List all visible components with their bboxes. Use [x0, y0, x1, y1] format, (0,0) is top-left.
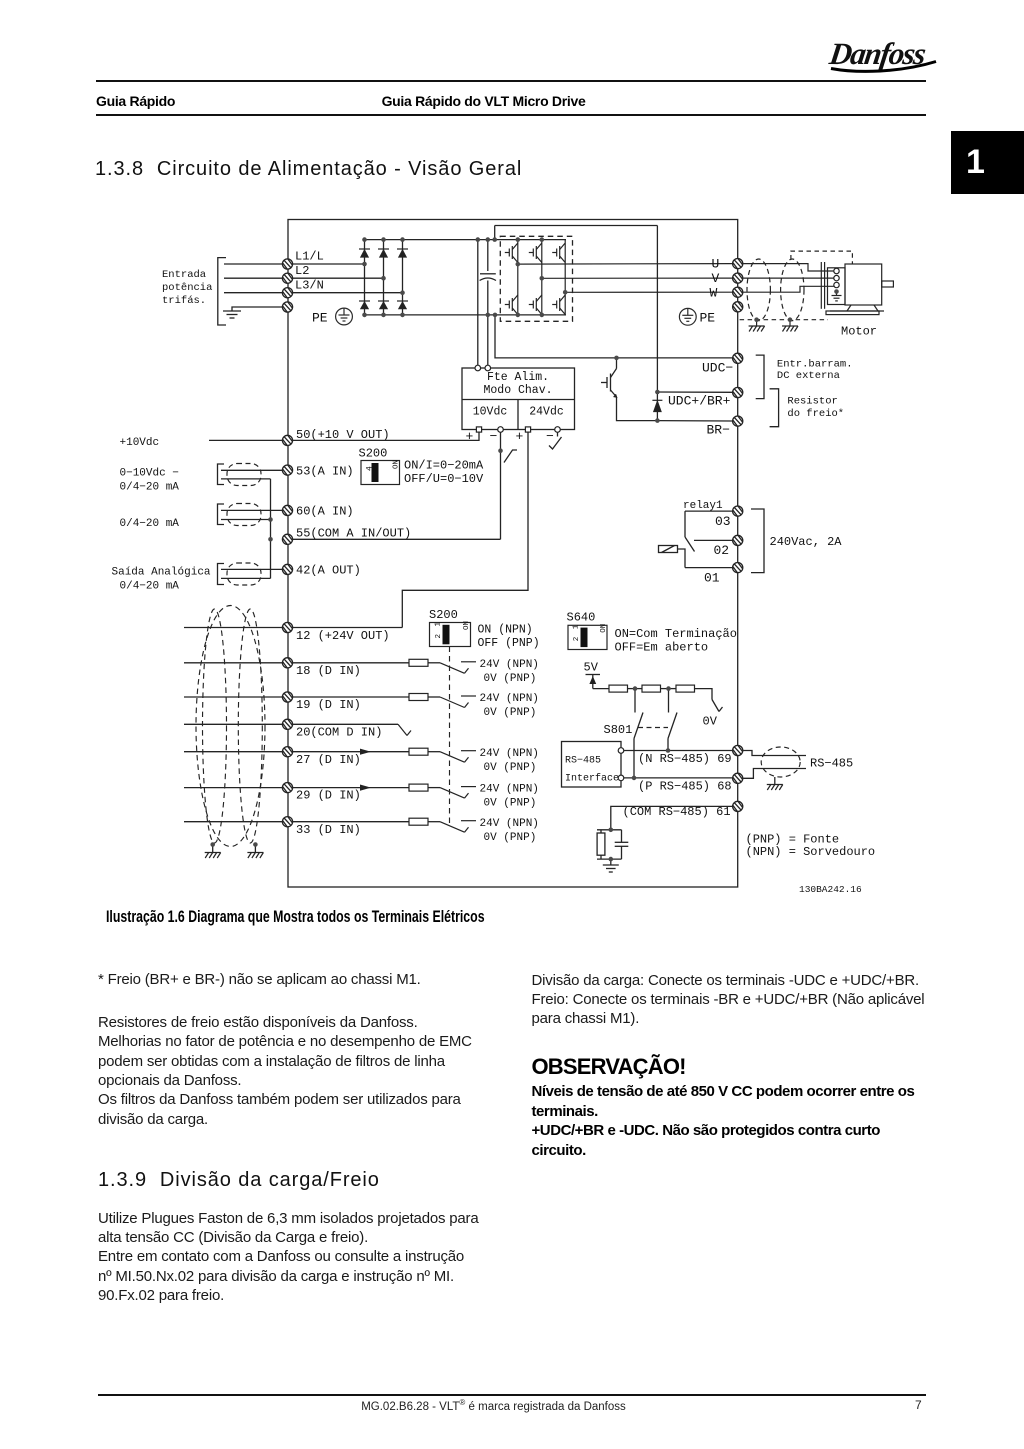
- shielded pair 60 bracket: [218, 504, 225, 525]
- junction dots brake: [614, 356, 660, 423]
- IGBT Q4: [505, 295, 518, 315]
- terminal UDC-: [733, 353, 743, 363]
- wire S801 drop1: [634, 689, 636, 713]
- svg-text:S801: S801: [604, 723, 633, 737]
- svg-text:UDC+/BR+: UDC+/BR+: [668, 394, 731, 409]
- svg-text:24Vdc: 24Vdc: [529, 406, 564, 419]
- svg-text:24V (NPN): 24V (NPN): [480, 693, 539, 705]
- shielded pair 53 screen: [227, 464, 261, 486]
- drive outer enclosure box: [288, 220, 738, 888]
- wire 50 +10V: [209, 439, 282, 441]
- wire 53 signal: [221, 469, 282, 471]
- label psu polarity: [466, 429, 555, 444]
- svg-text:OFF (PNP): OFF (PNP): [478, 637, 540, 650]
- switch 0V: [712, 700, 723, 712]
- bracket DC bus external: [756, 355, 764, 399]
- svg-text:0/4−20 mA: 0/4−20 mA: [120, 581, 180, 593]
- switch 20 common: [398, 724, 411, 735]
- wire 19 to switch: [428, 696, 440, 698]
- svg-text:1: 1: [435, 622, 443, 627]
- Danfoss logo: [812, 24, 962, 84]
- motor M1: [821, 262, 893, 315]
- svg-text:+10Vdc: +10Vdc: [120, 437, 160, 449]
- resistor R61: [597, 830, 605, 859]
- terminal 69: [733, 745, 743, 755]
- motor cable shield oval 2: [781, 259, 804, 321]
- resistor R33: [409, 818, 428, 825]
- terminal 02: [733, 535, 743, 545]
- wire 42 return: [221, 577, 271, 579]
- chapter tab: [951, 131, 1024, 194]
- IGBT Q2: [529, 243, 542, 263]
- label 27 levels: [480, 748, 539, 774]
- terminal 50: [282, 435, 292, 445]
- svg-text:S640: S640: [567, 611, 596, 625]
- PE output symbol: [679, 308, 696, 325]
- junction dots cable screen: [210, 842, 257, 847]
- svg-text:2: 2: [435, 634, 443, 639]
- wire relay 01: [685, 567, 732, 569]
- svg-text:0V: 0V: [703, 715, 718, 729]
- diode D7 brake: [652, 400, 662, 411]
- wire PE input: [232, 307, 282, 311]
- diode D6: [397, 301, 408, 309]
- wire L3 to leg3: [293, 292, 403, 294]
- shielded pair 42 bracket: [218, 564, 225, 585]
- wire analog common bus: [270, 479, 272, 579]
- wire 53 return: [221, 478, 271, 480]
- footer: [98, 1394, 926, 1396]
- svg-text:−: −: [490, 429, 498, 444]
- label 29 levels: [480, 784, 539, 810]
- wire 27 external: [184, 751, 282, 753]
- terminal 01: [733, 563, 743, 573]
- wire coil to contact: [678, 549, 686, 568]
- pin psu 24V plus: [525, 427, 530, 432]
- resistor R29: [409, 784, 428, 791]
- wire L2 to leg2: [293, 277, 384, 279]
- wire 69: [624, 750, 732, 752]
- wire U to motor: [743, 264, 834, 271]
- wire L1 to leg1: [293, 263, 365, 265]
- junction dots DC link: [476, 237, 498, 317]
- junction dots rc: [609, 828, 614, 862]
- wire relay common drop: [684, 511, 686, 537]
- svg-text:OFF=Em aberto: OFF=Em aberto: [615, 641, 709, 655]
- svg-text:0V (PNP): 0V (PNP): [484, 707, 537, 719]
- svg-text:L3/N: L3/N: [295, 279, 324, 293]
- wire cable screen drain 2: [254, 845, 256, 853]
- wire shield ground stub 2: [789, 320, 791, 326]
- wire brake IGBT collector: [616, 358, 618, 369]
- wire BR-: [657, 420, 732, 422]
- terminal 20: [282, 719, 292, 729]
- label PNP NPN legend: [746, 833, 876, 859]
- junction dot motor pe: [834, 289, 839, 294]
- svg-text:10Vdc: 10Vdc: [473, 406, 508, 419]
- svg-text:S200: S200: [359, 447, 388, 461]
- switch S801 blade1: [634, 713, 643, 739]
- wire inverter leg3: [564, 240, 566, 315]
- terminal 19: [282, 692, 292, 702]
- terminal 60: [282, 505, 292, 515]
- diode D2: [378, 249, 389, 257]
- svg-text:5V: 5V: [584, 661, 599, 675]
- terminal 18: [282, 658, 292, 668]
- svg-text:RS−485: RS−485: [565, 756, 601, 767]
- switch jumper 10V minus: [504, 450, 517, 463]
- label 33 levels: [480, 818, 539, 844]
- ground digital cable 1: [205, 853, 221, 859]
- wire rc top: [597, 829, 622, 831]
- mains input bracket: [218, 258, 226, 325]
- PE input symbol: [336, 308, 353, 325]
- svg-text:L1/L: L1/L: [295, 250, 324, 264]
- terminal U: [733, 259, 743, 269]
- svg-text:60(A IN): 60(A IN): [296, 505, 354, 519]
- svg-text:(P RS−485) 68: (P RS−485) 68: [638, 780, 732, 794]
- diode D3: [397, 249, 408, 257]
- terminal 27: [282, 747, 292, 757]
- wire rectifier leg3: [402, 240, 404, 315]
- diode D4: [359, 301, 370, 309]
- wire 68: [624, 777, 732, 779]
- ground rc earth: [603, 865, 619, 872]
- wire 33 to switch: [428, 821, 440, 823]
- wire brake IGBT emitter: [617, 397, 658, 421]
- digital cable screen core2: [238, 609, 262, 843]
- wire DC- rail: [365, 314, 567, 316]
- wire 20 external: [184, 723, 282, 725]
- wire R2 to R3: [661, 688, 677, 690]
- terminal L1/L: [282, 259, 292, 269]
- junction dots shield: [754, 317, 792, 322]
- wire W output: [565, 291, 732, 293]
- svg-text:24V (NPN): 24V (NPN): [480, 784, 539, 796]
- svg-text:ON: ON: [600, 624, 608, 633]
- svg-text:0V (PNP): 0V (PNP): [484, 762, 537, 774]
- svg-text:12 (+24V OUT): 12 (+24V OUT): [296, 629, 390, 643]
- svg-text:ON (NPN): ON (NPN): [478, 624, 533, 637]
- svg-text:0V (PNP): 0V (PNP): [484, 832, 537, 844]
- svg-text:01: 01: [704, 571, 720, 586]
- wire DC bus left: [477, 240, 479, 368]
- junction dots rs485: [632, 748, 671, 780]
- junction dot com jumper: [498, 448, 503, 453]
- junction dots rectifier: [362, 237, 405, 317]
- svg-text:0V (PNP): 0V (PNP): [484, 798, 537, 810]
- wire 24V plus down: [402, 432, 528, 627]
- wire inverter leg1: [517, 240, 519, 315]
- wire 33 external: [184, 821, 282, 823]
- svg-text:(NPN) = Sorvedouro: (NPN) = Sorvedouro: [746, 845, 876, 859]
- wire blade1 to 68: [633, 739, 635, 778]
- svg-text:4: 4: [366, 466, 375, 471]
- wire 18 internal: [293, 662, 409, 664]
- wire 29 to switch: [428, 787, 440, 789]
- wire DC+ top link: [495, 225, 658, 227]
- label S640 setting: [615, 627, 737, 655]
- terminal 55: [282, 534, 292, 544]
- wire 60 return: [221, 519, 271, 521]
- wire S200 dashed gang: [449, 647, 451, 827]
- wire L1 input: [224, 263, 282, 265]
- switch 29 npn pnp: [440, 787, 476, 799]
- svg-text:trifás.: trifás.: [162, 295, 206, 307]
- svg-text:Interface: Interface: [565, 773, 619, 785]
- bracket relay rating: [751, 509, 764, 573]
- wire UDC+ drop: [656, 226, 658, 421]
- diode D5: [378, 301, 389, 309]
- svg-text:19 (D IN): 19 (D IN): [296, 698, 361, 712]
- wire UDC- branch: [495, 315, 732, 358]
- wire 19 internal: [293, 696, 409, 698]
- switch 19 npn pnp: [440, 696, 476, 708]
- arrow 27: [360, 749, 371, 755]
- junction dots analog common: [268, 517, 273, 541]
- svg-text:33 (D IN): 33 (D IN): [296, 823, 361, 837]
- wire 18 to switch: [428, 662, 440, 664]
- resistor R2 termination: [642, 685, 661, 692]
- svg-text:20(COM D IN): 20(COM D IN): [296, 725, 382, 739]
- wire cable shield stub: [774, 777, 776, 785]
- svg-text:55(COM A IN/OUT): 55(COM A IN/OUT): [296, 527, 411, 541]
- svg-text:24V (NPN): 24V (NPN): [480, 818, 539, 830]
- wire 50 to psu 10V plus: [293, 432, 479, 440]
- svg-text:V: V: [712, 271, 720, 286]
- inverter module dashed box: [500, 236, 572, 321]
- shielded pair 42 screen: [227, 563, 261, 585]
- terminal 53: [282, 465, 292, 475]
- wire rc ground stub: [610, 859, 612, 865]
- switch S801 gang dashed: [638, 727, 668, 729]
- switch 18 npn pnp: [440, 662, 476, 674]
- wire 20 internal: [293, 723, 398, 725]
- ground shield 1: [749, 326, 765, 332]
- svg-text:−: −: [546, 429, 554, 444]
- ground rs485 shield: [767, 785, 783, 791]
- wire L3 input: [224, 292, 282, 294]
- svg-text:27 (D IN): 27 (D IN): [296, 753, 361, 767]
- label Fte Alim. Modo Chav.: [483, 371, 552, 397]
- svg-text:ON: ON: [463, 621, 471, 630]
- wire 5V to R1: [593, 688, 609, 690]
- wire relay 03: [685, 510, 732, 512]
- svg-text:DC externa: DC externa: [777, 370, 840, 382]
- terminal V: [733, 273, 743, 283]
- pin psu 24V minus: [555, 427, 561, 433]
- svg-text:Motor: Motor: [841, 325, 877, 339]
- svg-text:Fte Alim.: Fte Alim.: [487, 371, 549, 384]
- digital cable screen outer: [196, 606, 265, 847]
- wire 19 external: [184, 696, 282, 698]
- terminal 42: [282, 564, 292, 574]
- relay coil K1: [659, 546, 678, 553]
- terminal W: [733, 287, 743, 297]
- IGBT Q6: [552, 295, 565, 315]
- svg-text:relay1: relay1: [683, 500, 723, 512]
- svg-text:U: U: [712, 257, 720, 272]
- terminal 33: [282, 817, 292, 827]
- junction dots inverter: [516, 237, 568, 317]
- wire V to motor: [743, 277, 834, 279]
- wire V output: [542, 277, 732, 279]
- label Entrada potencia trifas: [162, 269, 212, 307]
- svg-text:do freio*: do freio*: [787, 408, 844, 420]
- wire 12 internal: [293, 627, 402, 629]
- svg-text:29 (D IN): 29 (D IN): [296, 789, 361, 803]
- wire 55 common: [293, 538, 501, 540]
- svg-text:Resistor: Resistor: [787, 396, 837, 408]
- terminal PE input: [282, 302, 292, 312]
- power supply U2 switch mode: [462, 368, 575, 430]
- wire rectifier leg2: [383, 240, 385, 315]
- resistor R18: [409, 659, 428, 666]
- label Resistor do freio: [787, 396, 844, 420]
- wire DC bus right upper: [487, 240, 489, 271]
- svg-text:PE: PE: [700, 311, 716, 326]
- svg-text:240Vac, 2A: 240Vac, 2A: [770, 535, 843, 549]
- svg-text:03: 03: [715, 514, 731, 529]
- label RS-485 Interface: [565, 756, 619, 785]
- svg-text:potência: potência: [162, 282, 212, 294]
- terminal 03: [733, 506, 743, 516]
- digital cable screen core1: [203, 609, 227, 843]
- resistor R3 termination: [676, 685, 695, 692]
- ground input earth: [223, 311, 241, 318]
- svg-text:0V (PNP): 0V (PNP): [484, 673, 537, 685]
- svg-text:BR−: BR−: [707, 423, 731, 438]
- svg-text:L2: L2: [295, 264, 309, 278]
- capacitor C61: [615, 830, 629, 859]
- junction dots termination: [633, 686, 671, 691]
- wire DC+ riser: [494, 226, 496, 240]
- wire shield ground stub 1: [756, 320, 758, 326]
- right column: [532, 971, 932, 1029]
- svg-text:Entrada: Entrada: [162, 269, 206, 281]
- wire rc bottom: [597, 858, 622, 860]
- svg-text:2: 2: [573, 637, 581, 642]
- svg-text:ON=Com Terminação: ON=Com Terminação: [615, 627, 737, 641]
- terminal 68: [733, 773, 743, 783]
- wire 29 internal: [293, 787, 409, 789]
- svg-text:50(+10 V OUT): 50(+10 V OUT): [296, 428, 390, 442]
- resistor R19: [409, 694, 428, 701]
- wire 27 to switch: [428, 751, 440, 753]
- svg-text:PE: PE: [312, 311, 328, 326]
- svg-text:OFF/U=0−10V: OFF/U=0−10V: [404, 472, 484, 486]
- switch S801 blade2: [668, 713, 677, 739]
- svg-text:1: 1: [573, 624, 581, 629]
- terminal PE output: [733, 302, 743, 312]
- svg-text:02: 02: [714, 543, 730, 558]
- svg-text:S200: S200: [429, 608, 458, 622]
- pin interface P: [618, 775, 624, 781]
- wire 18 external: [184, 662, 282, 664]
- diode D1: [359, 249, 370, 257]
- terminal BR-: [733, 416, 743, 426]
- resistor R1 termination: [609, 685, 628, 692]
- svg-text:24V (NPN): 24V (NPN): [480, 748, 539, 760]
- svg-text:ON/I=0−20mA: ON/I=0−20mA: [404, 459, 484, 473]
- wire R1 to R2: [628, 688, 643, 690]
- IGBT Q1: [505, 243, 518, 263]
- label S200 analog setting: [404, 459, 484, 487]
- pin psu 10V minus: [498, 427, 504, 433]
- RS-485 interface box U3: [562, 742, 622, 788]
- label S200 digital setting: [478, 624, 540, 651]
- svg-text:+: +: [516, 429, 524, 444]
- wire 68 to cable: [743, 769, 806, 779]
- wire UDC+/BR+: [657, 391, 732, 393]
- IGBT Q3: [552, 243, 565, 263]
- IGBT Q7 brake chopper: [601, 369, 617, 398]
- arrow 5V: [589, 676, 596, 684]
- label 0-10Vdc range: [120, 468, 180, 494]
- wire 69 to cable: [743, 751, 806, 756]
- left column: [98, 970, 498, 989]
- wire U output: [518, 263, 732, 266]
- wire 33 internal: [293, 821, 409, 823]
- switch 27 npn pnp: [440, 751, 476, 763]
- svg-text:(N RS−485) 69: (N RS−485) 69: [638, 752, 732, 766]
- wire 27 internal: [293, 751, 409, 753]
- label 19 levels: [480, 693, 539, 719]
- label Saida Analogica: [112, 567, 211, 593]
- wire W to motor: [743, 286, 834, 292]
- rs485 cable screen: [761, 747, 800, 777]
- wire 61: [611, 806, 732, 829]
- caption: [106, 907, 485, 927]
- svg-text:Modo Chav.: Modo Chav.: [483, 384, 552, 397]
- pin psu top 2: [485, 365, 491, 371]
- switch 33 npn pnp: [440, 821, 476, 833]
- svg-text:0/4−20 mA: 0/4−20 mA: [120, 518, 180, 530]
- label Entr.barram. DC externa: [777, 359, 853, 382]
- wire relay 02 stub: [694, 539, 732, 541]
- wire 29 external: [184, 787, 282, 789]
- wire 60 signal: [221, 509, 282, 511]
- terminal L2: [282, 273, 292, 283]
- svg-text:0−10Vdc −: 0−10Vdc −: [120, 468, 179, 480]
- motor cable shield oval 1: [747, 259, 770, 321]
- wire shield top dashed: [791, 251, 853, 264]
- arrow 29: [360, 785, 371, 791]
- ground shield 2: [782, 326, 798, 332]
- wire cable screen drain 1: [212, 845, 214, 853]
- wire blade2 to 69: [667, 739, 669, 751]
- svg-text:W: W: [710, 285, 718, 300]
- terminal UDC+/BR+: [733, 387, 743, 397]
- IGBT Q5: [529, 295, 542, 315]
- svg-text:130BA242.16: 130BA242.16: [799, 884, 862, 895]
- pin psu 10V plus: [476, 427, 481, 432]
- svg-text:ON: ON: [393, 460, 401, 469]
- terminal 29: [282, 783, 292, 793]
- terminal L3/N: [282, 288, 292, 298]
- svg-text:18 (D IN): 18 (D IN): [296, 664, 361, 678]
- switch relay blade: [685, 537, 695, 552]
- wire 12 external: [184, 627, 282, 629]
- header rules: [96, 80, 926, 82]
- svg-text:Entr.barram.: Entr.barram.: [777, 359, 853, 371]
- wire 10V minus to com: [500, 432, 502, 539]
- wire 42 signal: [221, 568, 282, 570]
- pin psu top 1: [475, 365, 481, 371]
- shielded pair 60 screen: [227, 504, 261, 526]
- wire rectifier leg1: [364, 240, 366, 315]
- ground digital cable 2: [247, 853, 263, 859]
